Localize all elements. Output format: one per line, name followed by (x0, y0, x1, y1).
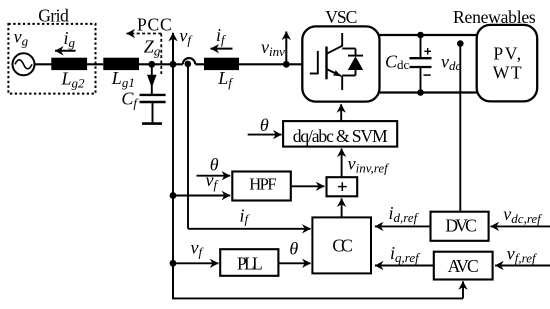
IGBT collector (327, 33, 343, 54)
inductor Lg2 (51, 58, 87, 70)
AC source Vg (13, 53, 35, 75)
IGBT body bar (325, 47, 327, 80)
svg-text:WT: WT (493, 62, 522, 82)
svg-text:Grid: Grid (38, 5, 69, 25)
wire Lg2 to Lg1 (87, 63, 103, 65)
wire PLL to CC arrow (278, 262, 310, 264)
block AVC (434, 252, 493, 280)
node Cf tap (148, 61, 155, 68)
voltage arrow vf (172, 33, 174, 65)
node vinv tap (283, 61, 290, 68)
svg-text:dq/abc & SVM: dq/abc & SVM (293, 126, 388, 146)
node if tap (185, 61, 192, 68)
wire vdc,ref to DVC arrow (491, 225, 550, 227)
freewheel diode D1 (342, 49, 363, 76)
summing block (327, 177, 358, 196)
svg-text:θ: θ (289, 239, 298, 259)
svg-text:AVC: AVC (448, 256, 479, 276)
PCC dashed pointer (127, 34, 162, 75)
converter VSC box (302, 26, 379, 101)
block DVC (431, 212, 489, 241)
inductor Lf (204, 58, 239, 70)
wire Cf to ground (152, 102, 154, 123)
wire Lf to VSC (239, 63, 302, 65)
wire CC to sum arrow (341, 198, 343, 217)
wire vdc sense to DVC (459, 44, 461, 212)
current arrow into Cf (147, 75, 157, 88)
svg-text:θ: θ (260, 115, 269, 135)
IGBT gate (310, 51, 318, 75)
wire node to Cf (151, 64, 153, 94)
IGBT emitter with arrow (327, 69, 343, 90)
wire vf,ref to AVC arrow (495, 265, 550, 267)
wire Lg1 to Lf (139, 63, 183, 65)
inductor Lg1 (103, 58, 139, 70)
wire vf to PLL arrow (173, 262, 218, 264)
svg-text:DVC: DVC (445, 216, 477, 236)
node Cdc bottom (417, 89, 424, 96)
svg-text:PV,: PV, (493, 43, 521, 63)
theta arrow into HPF (197, 175, 231, 177)
ground (142, 122, 162, 125)
node vdc sense (457, 40, 464, 47)
wire DVC to CC arrow (375, 225, 431, 227)
wire sum to dq/abc arrow (341, 149, 343, 178)
block CC (312, 217, 371, 273)
wire if sense down (187, 64, 189, 229)
node vf to HPF (170, 192, 177, 199)
capacitor Cdc (410, 35, 432, 93)
voltage arrow vinv (285, 32, 287, 65)
current sensor hop arc (183, 58, 195, 64)
current arrow if (211, 48, 233, 50)
wire AVC to CC arrow (375, 265, 434, 267)
svg-text:PCC: PCC (137, 14, 172, 34)
block dq/abc & SVM (283, 121, 397, 147)
node vf to PLL (170, 260, 177, 267)
label plus (338, 182, 347, 191)
node vf tap (170, 61, 177, 68)
block HPF (232, 172, 290, 201)
node Cdc top (417, 32, 424, 39)
wire dq/abc to VSC arrow (340, 104, 342, 121)
wire vf to HPF arrow (173, 195, 230, 197)
wire vf sense down (172, 64, 174, 298)
svg-text:VSC: VSC (325, 7, 357, 27)
polarity minus (424, 74, 431, 76)
wire if to CC arrow (188, 228, 311, 230)
feedback wire vf to AVC (173, 263, 463, 298)
theta arrow into dq/abc (248, 134, 282, 136)
svg-text:PLL: PLL (237, 254, 263, 274)
block PLL (220, 249, 278, 276)
dc bus bottom wire (380, 91, 477, 93)
current arrow ig (55, 50, 76, 52)
svg-text:CC: CC (332, 235, 353, 255)
capacitor Cf (140, 95, 166, 102)
renewables box (477, 25, 538, 102)
dc bus top wire (380, 34, 477, 36)
grid dashed box (8, 24, 95, 94)
polarity plus (424, 48, 431, 55)
wire HPF to sum arrow (291, 185, 325, 187)
svg-text:HPF: HPF (249, 175, 276, 194)
wire source to Lg2 (35, 63, 52, 65)
